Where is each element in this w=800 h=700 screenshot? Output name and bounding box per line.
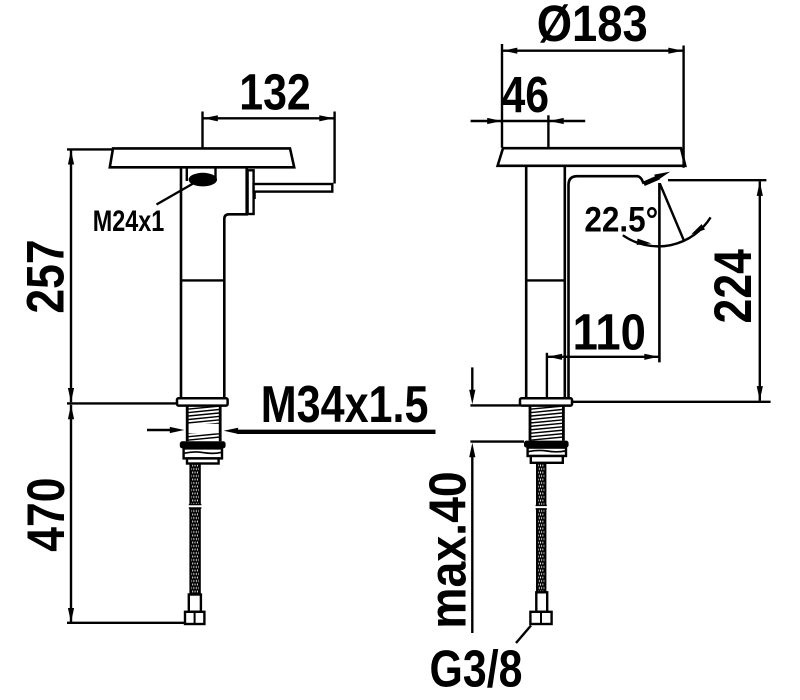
dim 132 extension right bbox=[333, 112, 335, 184]
G3/8 leader bbox=[516, 626, 531, 644]
locknut wave (right) bbox=[529, 450, 566, 451]
plate (left view) bbox=[110, 148, 294, 167]
svg-text:max.40: max.40 bbox=[419, 471, 477, 628]
hose ferrule (left) bbox=[189, 595, 201, 612]
hose joint (left) bbox=[189, 505, 202, 508]
body outline (left view) bbox=[181, 167, 247, 398]
dim 132 arrow right bbox=[319, 115, 334, 121]
dim 257 top ref line bbox=[67, 148, 113, 150]
svg-text:224: 224 bbox=[704, 249, 762, 323]
dim 110 arrow right bbox=[644, 354, 659, 360]
dim 132 line bbox=[203, 117, 334, 119]
escutcheon strip bbox=[248, 170, 254, 214]
bottom long ref line (right view) bbox=[520, 401, 771, 403]
dim 110 arrow left bbox=[548, 354, 563, 360]
handle lever (left view) bbox=[254, 184, 333, 192]
locknut (right) bbox=[528, 448, 566, 456]
M34x1.5 right arrow with tail bbox=[237, 430, 436, 434]
svg-text:G3/8: G3/8 bbox=[430, 641, 523, 699]
dim 470 arrow top bbox=[68, 405, 74, 420]
arc arrowhead left bbox=[637, 239, 652, 245]
svg-text:M24x1: M24x1 bbox=[93, 204, 165, 237]
plate (right view) bbox=[498, 148, 686, 166]
max40 top ref line bbox=[470, 404, 520, 406]
vertical extension from lip bbox=[658, 183, 661, 362]
svg-text:46: 46 bbox=[501, 66, 549, 123]
dim 224 arrow top bbox=[757, 181, 763, 196]
strip lower tick bbox=[254, 192, 256, 199]
locknut wave bbox=[185, 452, 222, 453]
dim 132 arrow left bbox=[203, 115, 218, 121]
22.5 degree arc bbox=[623, 217, 711, 246]
dim 110 line bbox=[548, 356, 659, 358]
hose ferrule (right) bbox=[536, 592, 547, 612]
M24x1 leader bbox=[157, 183, 195, 205]
aerator housing bbox=[187, 168, 216, 181]
dim diameter 183 line bbox=[503, 50, 684, 52]
aerator ellipse bbox=[189, 173, 217, 187]
threaded shank (right view) bbox=[530, 406, 563, 440]
hose joint (right) bbox=[535, 505, 547, 508]
locknut (left) bbox=[184, 448, 222, 458]
svg-text:Ø183: Ø183 bbox=[537, 0, 648, 52]
bottom boundary ref line bbox=[67, 622, 185, 624]
dim 132 extension left bbox=[201, 112, 203, 148]
max40 bottom arrow with tail bbox=[471, 454, 473, 633]
22.5 degree diagonal bbox=[660, 184, 685, 242]
mid boundary ref line bbox=[67, 402, 177, 404]
svg-text:22.5°: 22.5° bbox=[584, 201, 658, 240]
locknut black band (left) bbox=[180, 441, 226, 448]
max40 top arrow (outside above) bbox=[471, 367, 473, 392]
svg-text:M34x1.5: M34x1.5 bbox=[261, 376, 429, 434]
dim 224 line bbox=[759, 181, 761, 400]
dim diameter 183 ext right bbox=[682, 46, 684, 168]
dim 110 ext left bbox=[546, 353, 548, 400]
dim 470 arrow bottom bbox=[68, 608, 74, 623]
locknut black band (right) bbox=[524, 441, 569, 448]
dim 470 line bbox=[70, 405, 72, 623]
column (right view) bbox=[526, 166, 565, 398]
dim 183 arrow left bbox=[503, 48, 518, 54]
threaded shank (left view) bbox=[187, 406, 220, 440]
locknut step (left) bbox=[187, 458, 219, 463]
max40 bottom ref line bbox=[470, 440, 524, 442]
svg-text:257: 257 bbox=[17, 239, 75, 313]
shank edges bbox=[187, 406, 220, 442]
svg-text:470: 470 bbox=[17, 477, 75, 551]
dim 224 top ref line bbox=[668, 179, 766, 181]
hose (right view) bbox=[537, 463, 545, 593]
locknut step (right) bbox=[531, 456, 563, 463]
dim 224 arrow bottom bbox=[757, 386, 763, 401]
flange (right view) bbox=[520, 398, 572, 405]
svg-text:110: 110 bbox=[573, 304, 646, 361]
hose end fitting (right) bbox=[530, 612, 551, 624]
hose (left view) bbox=[190, 464, 199, 595]
shank edges (right) bbox=[530, 406, 563, 441]
dim 257 line bbox=[70, 151, 72, 403]
svg-text:132: 132 bbox=[239, 63, 310, 120]
shank white band bbox=[188, 424, 219, 433]
hose end fitting (left) bbox=[185, 612, 204, 624]
spout lip arrowhead bbox=[654, 172, 670, 181]
dim 46 ext right bbox=[547, 115, 549, 147]
body panel (right view) bbox=[569, 176, 644, 398]
body joint line bbox=[181, 279, 224, 281]
arc arrowhead right bbox=[691, 224, 705, 234]
M34x1.5 left arrow bbox=[147, 429, 171, 431]
column joint line bbox=[526, 279, 565, 281]
dim 46 left arrow (outside) bbox=[471, 120, 586, 122]
dim 46 right arrow (outside) bbox=[549, 118, 564, 124]
dim 183 arrow right bbox=[668, 48, 683, 54]
spout lip bbox=[644, 177, 659, 184]
dim 257 arrow bottom bbox=[68, 388, 74, 403]
dim diameter 183 ext left bbox=[501, 44, 503, 148]
flange (left view) bbox=[177, 398, 228, 405]
dim 257 arrow top bbox=[68, 150, 74, 165]
